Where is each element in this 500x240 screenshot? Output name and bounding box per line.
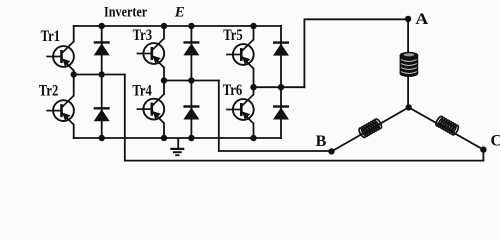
svg-text:Tr6: Tr6 bbox=[223, 82, 243, 99]
svg-text:C: C bbox=[491, 132, 500, 149]
svg-text:E: E bbox=[174, 5, 185, 21]
svg-text:B: B bbox=[316, 133, 327, 150]
svg-text:Tr2: Tr2 bbox=[39, 82, 59, 99]
svg-text:Tr1: Tr1 bbox=[41, 28, 61, 45]
svg-text:Tr5: Tr5 bbox=[223, 27, 243, 44]
svg-text:Tr4: Tr4 bbox=[132, 83, 152, 100]
svg-text:A: A bbox=[415, 11, 429, 28]
svg-text:Inverter: Inverter bbox=[104, 5, 147, 21]
svg-text:Tr3: Tr3 bbox=[133, 27, 153, 44]
